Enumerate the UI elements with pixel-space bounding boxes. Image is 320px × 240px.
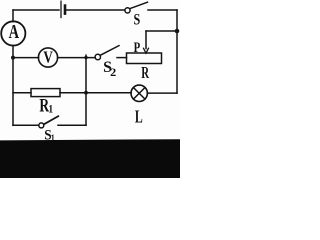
svg-text:2: 2 bbox=[110, 66, 116, 78]
svg-text:S: S bbox=[134, 12, 141, 29]
svg-text:R: R bbox=[141, 64, 149, 83]
svg-text:1: 1 bbox=[48, 103, 53, 116]
svg-text:P: P bbox=[134, 38, 141, 55]
svg-text:V: V bbox=[43, 48, 52, 67]
svg-text:L: L bbox=[135, 108, 143, 127]
svg-text:A: A bbox=[9, 20, 20, 43]
